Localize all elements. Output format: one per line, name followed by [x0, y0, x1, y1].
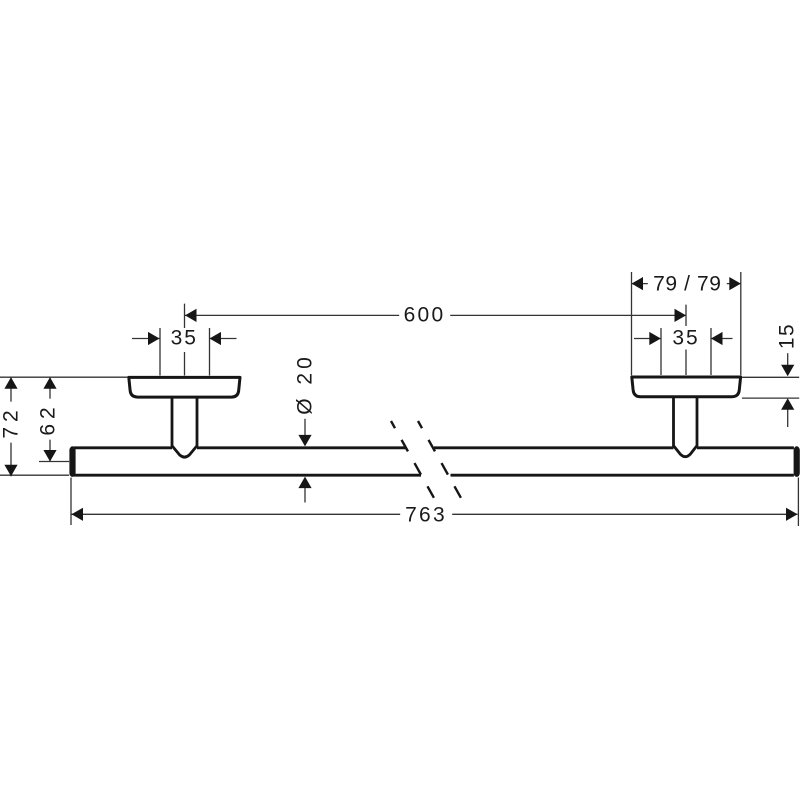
arrowhead 35 right-left — [649, 332, 661, 345]
arrowhead diameter down — [298, 435, 311, 447]
dimension 15 line — [787, 350, 789, 427]
label 35 right — [667, 328, 704, 349]
dimension line 763 — [72, 513, 798, 515]
label 35 left — [166, 328, 203, 349]
bar right end cap — [794, 446, 800, 477]
extension line 79/79 right — [740, 272, 742, 375]
center tick left bracket — [184, 304, 186, 376]
center tick right bracket — [685, 305, 687, 375]
arrowhead 72 down — [4, 465, 17, 477]
arrowhead 35 right-right — [711, 332, 723, 345]
arrowhead 35 left-right — [210, 332, 222, 345]
bar top edge — [74, 446, 794, 449]
arrowhead 600 left — [185, 309, 197, 322]
extension line 79/79 left — [631, 272, 633, 375]
label 62 — [38, 398, 59, 439]
arrowhead 763 left — [72, 508, 84, 521]
extension line 763 left — [70, 478, 72, 526]
dimension 72 line — [10, 377, 12, 476]
label 72 — [0, 401, 21, 442]
dimension 35 left tails — [132, 338, 237, 340]
dimension 35 right tails — [634, 338, 733, 340]
arrowhead diameter up — [298, 477, 311, 489]
arrowhead 15 up — [781, 398, 794, 410]
extension lines 35 left — [160, 328, 210, 376]
dimension line diameter 20 — [304, 419, 306, 503]
axis tick line — [39, 461, 69, 463]
extension lines 35 right — [661, 328, 711, 375]
break mark diagonal 1 — [391, 421, 434, 498]
arrowhead 62 up — [43, 377, 56, 389]
arrowhead 600 right — [675, 309, 687, 322]
right stem — [674, 397, 698, 457]
extension line bar bottom left — [0, 474, 69, 476]
arrowhead 62 down — [43, 450, 56, 462]
label 15 — [777, 319, 798, 353]
label 763 — [400, 505, 452, 526]
arrowhead 35 left-left — [148, 332, 160, 345]
bar left end cap — [69, 446, 75, 477]
extension line left plate top — [0, 376, 128, 378]
arrowhead 763 right — [786, 508, 798, 521]
dimension line 600 — [185, 314, 686, 316]
arrowhead 72 up — [4, 377, 17, 389]
arrowhead 79/79 right — [729, 277, 741, 290]
arrowhead 15 down — [781, 365, 794, 377]
label 79/79 — [648, 273, 726, 294]
left stem — [172, 397, 197, 457]
left wall plate — [129, 377, 240, 397]
extension line 763 right — [797, 478, 799, 527]
bar bottom edge — [74, 474, 794, 477]
dimension 62 line — [49, 377, 51, 461]
right wall plate — [632, 377, 741, 397]
label 600 — [399, 305, 451, 326]
label diameter 20 — [295, 349, 316, 419]
extension lines right plate — [742, 377, 799, 398]
arrowhead 79/79 left — [632, 277, 644, 290]
break mark diagonal 2 — [418, 421, 461, 498]
dimension line 79/79 — [632, 283, 741, 285]
